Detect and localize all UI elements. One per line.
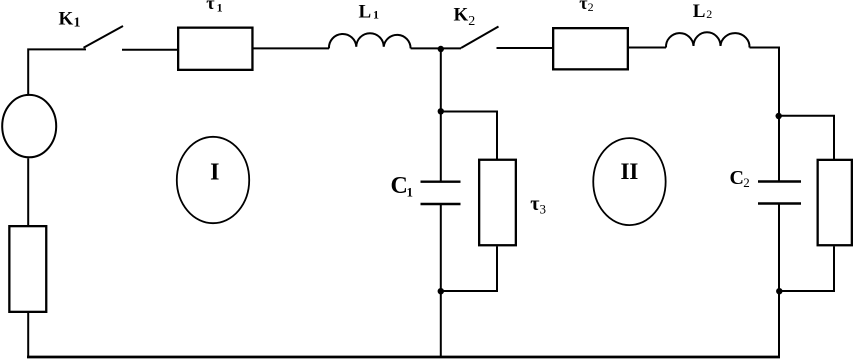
switch K2 blade [461,27,499,49]
svg-text:1: 1 [74,16,81,31]
svg-text:II: II [620,159,638,184]
svg-text:τ: τ [206,0,215,13]
resistor right (unlabeled box) [818,160,852,245]
svg-text:K: K [454,4,469,25]
capacitor C2 plates [758,180,801,182]
wire: tau1 to L1 [254,47,330,49]
inductor L2 [666,32,750,47]
wire: K2 fixed contact to resistor tau2 [497,47,553,49]
wire: C2 branch top to tau-less right resistor (top run) [779,116,834,159]
svg-text:I: I [210,159,219,185]
resistor left (unlabeled box) [9,226,46,312]
node D junction dot (top of C1 branch) [438,108,444,114]
loop II ellipse [593,138,665,225]
resistor tau1 box [178,28,252,70]
source G circle [2,95,56,157]
wire: K1 fixed contact to resistor tau1 [122,49,177,51]
node A junction dot [438,46,444,52]
svg-text:K: K [59,8,74,29]
wire: C2 bottom plate down to bottom rail [778,204,780,358]
resistor tau3 box [479,160,516,246]
svg-text:1: 1 [373,8,379,22]
svg-text:2: 2 [588,0,594,14]
bottom rail wire [27,356,780,359]
capacitor C1 plates [421,180,461,182]
svg-text:1: 1 [217,1,223,15]
wire: C1 bottom plate down to bottom rail [440,204,442,357]
node C junction dot (bottom of C2 branch) [776,288,782,294]
wire: tau2 to L2 [629,47,666,49]
svg-text:L: L [359,1,372,22]
wire: L1 to node A and on to K2 hinge [411,47,461,49]
svg-text:2: 2 [706,7,712,21]
loop I ellipse [177,137,249,223]
resistor tau2 box [553,28,628,69]
wire: L2 to top-right corner and down to node B [750,48,780,182]
wire: left resistor to bottom rail [27,313,29,357]
svg-text:C: C [391,173,408,199]
switch K1 blade [84,26,124,48]
wire: top-left horizontal from source corner to K1 hinge [28,49,86,94]
svg-text:τ: τ [530,193,539,215]
svg-text:2: 2 [743,175,750,190]
node E junction dot (bottom of C1 branch) [438,288,444,294]
node B junction dot (top of C2 branch) [776,113,782,119]
svg-text:C: C [730,167,744,189]
svg-text:1: 1 [407,184,414,199]
inductor L1 [329,33,411,48]
svg-text:L: L [693,1,706,22]
wire: C1 branch top to resistor tau3 (top run) [441,112,497,160]
wire: right resistor bottom back to node C [779,246,834,291]
wire: source bottom to left resistor [27,158,29,225]
svg-text:2: 2 [468,14,475,29]
wire: tau3 bottom back to node E [441,246,497,291]
svg-text:3: 3 [540,202,547,217]
wire: middle vertical node A down to C1 top plate [440,48,442,181]
